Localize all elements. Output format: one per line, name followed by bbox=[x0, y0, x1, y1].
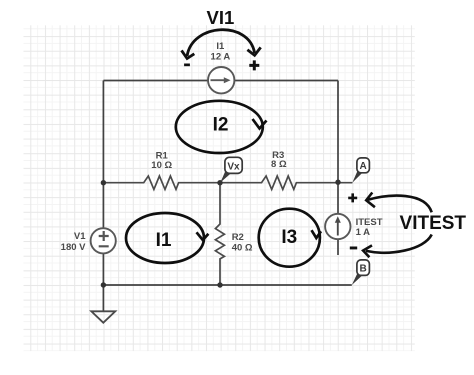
annotation VITEST lower arc bbox=[366, 235, 432, 253]
voltage source V1 bbox=[91, 228, 116, 253]
wire left rail lower bbox=[102, 253, 104, 311]
mesh loop I3 bbox=[259, 209, 321, 267]
wire middle rail with resistors R1 R3 bbox=[103, 176, 352, 189]
label resistor R1 value bbox=[151, 150, 172, 171]
svg-text:8 Ω: 8 Ω bbox=[271, 159, 287, 170]
annotation VI1 minus bbox=[184, 64, 190, 67]
svg-text:I1: I1 bbox=[156, 230, 172, 251]
label ITEST value bbox=[356, 217, 383, 238]
node tag A bbox=[352, 158, 369, 183]
node junction dot left-middle bbox=[101, 180, 106, 185]
annotation VITEST plus bbox=[348, 193, 357, 202]
annotation VI1 arc right arrowhead bbox=[247, 47, 260, 55]
svg-text:A: A bbox=[359, 161, 366, 172]
annotation VITEST upper arrowhead bbox=[366, 193, 375, 208]
wire right rail bbox=[337, 81, 339, 214]
annotation VITEST upper arc bbox=[368, 196, 432, 213]
svg-text:40 Ω: 40 Ω bbox=[232, 242, 253, 253]
annotation VITEST minus bbox=[350, 247, 357, 250]
svg-text:10 Ω: 10 Ω bbox=[151, 160, 172, 171]
svg-text:VITEST: VITEST bbox=[400, 213, 467, 234]
wire left rail upper bbox=[102, 81, 104, 229]
node tag Vx bbox=[220, 157, 242, 182]
node junction dot right-middle bbox=[335, 180, 340, 185]
node junction dot left-bottom bbox=[101, 282, 106, 287]
wire ITEST bottom stub bbox=[337, 239, 339, 255]
svg-text:V1: V1 bbox=[74, 231, 86, 242]
svg-text:1 A: 1 A bbox=[356, 227, 371, 238]
annotation VITEST lower arrowhead bbox=[363, 245, 372, 257]
svg-text:I1: I1 bbox=[216, 41, 225, 52]
svg-text:180 V: 180 V bbox=[61, 242, 86, 253]
annotation VI1 arc left arrowhead bbox=[182, 50, 195, 58]
annotation VI1 arc bbox=[187, 30, 255, 56]
node junction dot Vx bbox=[217, 180, 222, 185]
label I1 value bbox=[211, 41, 231, 63]
svg-text:Vx: Vx bbox=[227, 161, 240, 172]
wire top rail bbox=[103, 80, 338, 82]
svg-text:I2: I2 bbox=[213, 114, 229, 135]
label V1 value bbox=[61, 231, 87, 253]
wire bottom rail bbox=[103, 284, 351, 286]
svg-text:I3: I3 bbox=[281, 227, 297, 248]
wire R2 branch vertical bbox=[215, 183, 224, 285]
node tag B bbox=[352, 260, 370, 285]
mesh loop I1 bbox=[126, 213, 208, 263]
current source I1 bbox=[208, 67, 234, 93]
svg-text:12 A: 12 A bbox=[211, 51, 231, 62]
svg-text:R2: R2 bbox=[232, 232, 244, 243]
node junction dot R2-bottom bbox=[217, 282, 222, 287]
label resistor R2 value bbox=[232, 232, 253, 254]
ground bbox=[91, 311, 115, 322]
svg-text:B: B bbox=[359, 264, 366, 275]
svg-text:VI1: VI1 bbox=[207, 7, 235, 28]
current source ITEST bbox=[325, 214, 350, 239]
annotation VI1 plus bbox=[249, 60, 259, 70]
mesh loop I2 bbox=[176, 101, 267, 153]
label resistor R3 value bbox=[271, 150, 287, 170]
